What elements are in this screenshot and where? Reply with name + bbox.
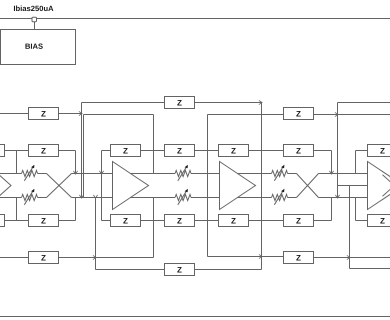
wire: diff line plus x37.5-46.5 — [38, 173, 47, 175]
wire: diff line plus x287.5-296.5 — [288, 173, 297, 175]
impedance Z row3 clipped left — [0, 215, 5, 227]
crossover X3 wire a (clipped) — [383, 175, 390, 183]
crossover X1 wire b — [47, 174, 72, 198]
wire: v x349.5 mid to bottom exit — [349, 186, 351, 269]
impedance Z row2 c — [165, 145, 195, 157]
wire: v x331.5 minus line to row3 — [331, 198, 333, 221]
junction at 337.5,197.5 — [335, 195, 339, 198]
impedance Z row3 b — [111, 215, 141, 227]
block BIAS — [1, 30, 76, 65]
wire: diff line minus x0-21.5 — [0, 197, 22, 199]
wire: v x337.5 y102 to minus line — [337, 103, 339, 198]
wire: v x331.5 row2 to plus line — [331, 151, 333, 174]
wire: y269.5 to Z5 left — [96, 269, 165, 271]
wire: v x75.5 minus line to row3 — [75, 198, 77, 221]
wire: bottom rail — [0, 316, 390, 318]
wire: diff line minus x287.5-296.5 — [288, 197, 297, 199]
junction at 337.5,114.5 — [335, 112, 338, 116]
wire: v x207.5 long column — [207, 115, 209, 257]
wire: v x101.5 row2 to row3 — [101, 151, 103, 221]
wire: diff line minus x318.5-367.5 — [319, 197, 368, 199]
wire: common-mode line into A3 — [338, 185, 368, 187]
impedance Z row3 a — [29, 215, 59, 227]
wire: v x75.5 row2 to plus line — [75, 151, 77, 174]
label Ibias250uA — [14, 5, 53, 11]
impedance Z row2 a — [29, 145, 59, 157]
wire: v x16.5 minus line to row3 — [16, 198, 18, 221]
wire: row2 bus x101.5-110.5 — [102, 150, 111, 152]
wire: v x153.5 W2 to plus line — [153, 115, 155, 174]
variable resistor R3b (minus line) — [272, 189, 288, 205]
junction at 75.5,173.5 — [73, 171, 77, 174]
wire: top bias rail — [0, 18, 390, 20]
wire: diff line plus x71.5-175 — [72, 173, 176, 175]
node: Ibias input port — [32, 17, 37, 22]
junction at 261.5,102.5 — [259, 100, 262, 104]
wire: diff line minus x71.5-175 — [72, 197, 176, 199]
wire: row3 bus x101.5-110.5 — [102, 220, 111, 222]
impedance Z row2 f — [368, 145, 390, 157]
wire: v x153.5 minus line to W4 — [153, 198, 155, 258]
impedance Z row4 right — [284, 252, 314, 264]
crossover X2 wire b — [297, 174, 319, 198]
crossover X2 wire a — [297, 174, 319, 198]
wire: v x355.5 minus line to row3 — [355, 198, 357, 221]
wire: diff line minus x191-271.5 — [191, 197, 272, 199]
wire: row3 bus x248.5-283.5 — [249, 220, 284, 222]
wire: v x83.5 W2 down to minus line — [83, 115, 85, 198]
wire: y113.5 Z1 to junction — [59, 113, 82, 115]
op-amp A0 (clipped at left edge) — [0, 162, 11, 210]
wire: y114.5 Z3 right exit — [314, 114, 390, 116]
op-amp A2 — [220, 162, 256, 210]
wire: y256.5 run — [208, 256, 284, 258]
impedance Z row1 center — [165, 97, 195, 109]
wire: row2 bus x355.5-367.5 — [356, 150, 368, 152]
impedance Z row3 d — [219, 215, 249, 227]
junction at 331.5,173.5 — [329, 171, 333, 174]
wire: y269.5 Z5 right — [195, 269, 262, 271]
impedance Z row1 right — [284, 108, 314, 120]
wire: row3 bus x4.5-28.5 — [5, 220, 29, 222]
variable resistor R1a (plus line) — [22, 165, 38, 181]
impedance Z row2 d — [219, 145, 249, 157]
wire: v x261.5 long column — [261, 103, 263, 270]
junction at 95.5,257.5 — [93, 255, 96, 259]
wire: row3 bus x194.5-218.5 — [195, 220, 219, 222]
wire: row2 bus x194.5-218.5 — [195, 150, 219, 152]
wire: y113.5 left edge to Z1 — [0, 113, 29, 115]
wire: y257.5 left edge to Z4 — [0, 257, 29, 259]
op-amp A1 — [113, 162, 149, 210]
wire: node to BIAS box — [34, 22, 36, 30]
variable resistor R1b (minus line) — [22, 189, 38, 205]
wire: row3 bus x58.5-75.5 — [59, 220, 76, 222]
impedance Z row2 e — [284, 145, 314, 157]
wire: row3 bus x313.5-331.5 — [314, 220, 332, 222]
wire: v x95.5 minus line down to Z5 wire — [95, 198, 97, 270]
wire: y114.5 W2 run — [84, 114, 154, 116]
junction at 95.5,197.5 — [93, 195, 97, 198]
wire: row2 bus x140.5-164.5 — [141, 150, 165, 152]
wire: row2 bus x4.5-28.5 — [5, 150, 29, 152]
wire: y102 Z2-right run — [195, 102, 262, 104]
wire: row3 bus x355.5-367.5 — [356, 220, 368, 222]
wire: diff line plus x0-21.5 — [0, 173, 22, 175]
impedance Z row3 e — [284, 215, 314, 227]
wire: y257.5 Z6 right exit — [314, 257, 390, 259]
wire: row2 bus x313.5-331.5 — [314, 150, 332, 152]
wire: y268.5 bottom right exit — [350, 268, 390, 270]
wire: row3 bus x140.5-164.5 — [141, 220, 165, 222]
junction at 261.5,256.5 — [259, 254, 262, 258]
impedance Z row3 f — [368, 215, 390, 227]
wire: v x16.5 row2 to plus line — [16, 151, 18, 174]
variable resistor R3a (plus line) — [272, 165, 288, 181]
impedance Z row3 c — [165, 215, 195, 227]
wire: diff line plus x191-271.5 — [191, 173, 272, 175]
wire: v x81.5 y102 to minus line — [81, 103, 83, 198]
junction at 81.5,197.5 — [79, 195, 83, 198]
impedance Z row1 left — [29, 108, 59, 120]
impedance Z row5 center — [165, 264, 195, 276]
wire: diff line plus x318.5-367.5 — [319, 173, 368, 175]
impedance Z row4 left — [29, 252, 59, 264]
wire: y257.5 Z4 to corner — [59, 257, 154, 259]
junction at 349.5,257.5 — [347, 255, 350, 259]
wire: row2 bus x248.5-283.5 — [249, 150, 284, 152]
wire: y114.5 loop top right — [208, 114, 284, 116]
junction at 101.5,173.5 — [99, 171, 103, 174]
variable resistor R2b (minus line) — [175, 189, 191, 205]
crossover X1 wire a — [47, 174, 72, 198]
op-amp A3 (clipped at right edge) — [368, 162, 390, 210]
wire: y102 top right exit — [338, 102, 390, 104]
variable resistor R2a (plus line) — [175, 165, 191, 181]
wire: row2 bus x58.5-75.5 — [59, 150, 76, 152]
impedance Z row2 clipped left — [0, 145, 5, 157]
junction at 81.5,113.5 — [79, 111, 82, 115]
crossover X3 wire b (clipped) — [383, 189, 390, 197]
impedance Z row2 b — [111, 145, 141, 157]
wire: diff line minus x37.5-46.5 — [38, 197, 47, 199]
wire: v x355.5 row2 to plus line — [355, 151, 357, 174]
wire: y102 Z2-left run — [82, 102, 165, 104]
